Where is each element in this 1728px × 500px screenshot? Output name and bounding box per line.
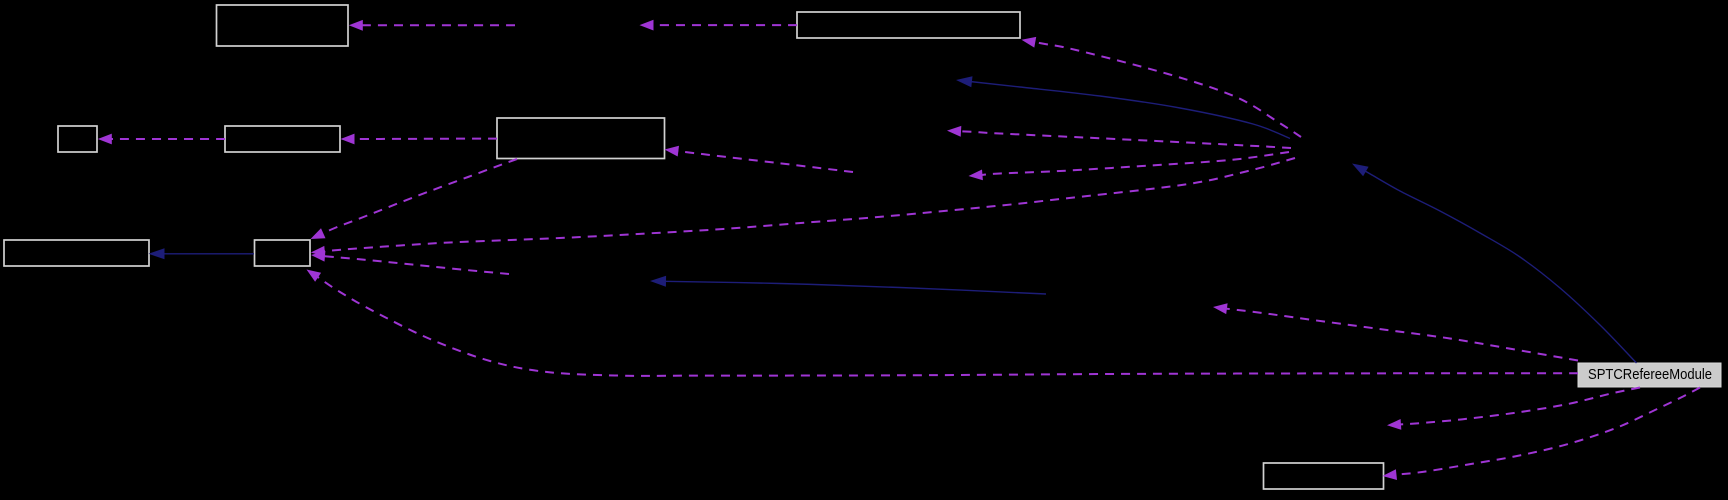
edge hub->box2 (dashed usage) [1022, 37, 1302, 137]
edge nodeC->box5 (dashed usage) [665, 146, 854, 172]
node box4 (left class) [225, 126, 340, 152]
edge box5->box4 (dashed usage) [341, 134, 498, 145]
node SPTCRefereeModule [1578, 363, 1721, 387]
edge box4->box3 (dashed usage) [98, 134, 225, 145]
edge nodeG->nodeE (solid inheritance) [650, 276, 1046, 294]
edge hub->nodeB (dashed usage) [947, 126, 1291, 148]
svg-text:SPTCRefereeModule: SPTCRefereeModule [1588, 367, 1712, 383]
edge SPTCRefereeModule->nodeI (dashed usage) [1387, 388, 1640, 430]
node box5 (center class) [497, 118, 665, 159]
edge hub->nodeC (dashed usage) [969, 152, 1290, 180]
edge box5->box7 (dashed usage) [311, 159, 518, 239]
edge SPTCRefereeModule->nodeH (dashed usage) [1213, 303, 1578, 360]
edge nodeJ->box7 (dashed usage) [311, 251, 509, 274]
node box9 (bottom class) [1264, 463, 1384, 489]
edge hub->nodeD (solid inheritance) [956, 76, 1290, 138]
node box7 (small center class) [255, 240, 311, 266]
edge box2->nodeA (dashed usage) [640, 20, 798, 31]
edge hub->box7 (dashed usage) [311, 158, 1295, 257]
edge SPTCRefereeModule->hub (solid inheritance) [1352, 164, 1637, 364]
node box1 (top-left class) [217, 5, 349, 46]
edge box7->box6 (solid inheritance) [149, 248, 255, 259]
node box6 (lower-left class) [4, 240, 149, 266]
edge nodeA->box1 (dashed usage) [349, 20, 515, 31]
edge SPTCRefereeModule->box9 (dashed usage) [1383, 388, 1701, 481]
node box2 (top-middle class) [797, 12, 1020, 38]
edge SPTCRefereeModule->box7 (long dashed usage) [307, 270, 1579, 376]
node box3 (small left class) [58, 126, 97, 152]
